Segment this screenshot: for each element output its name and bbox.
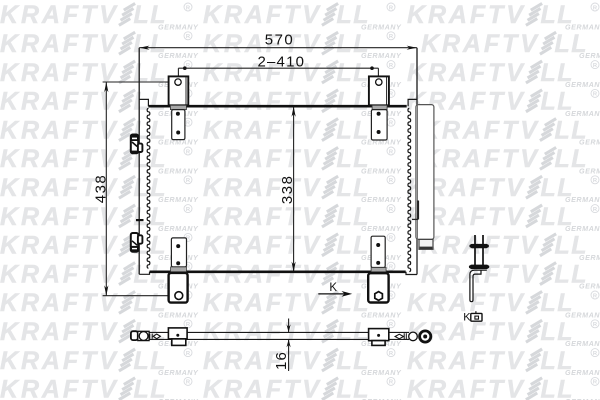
core bottom header (thick)	[150, 270, 406, 273]
top-left bracket lower plate	[172, 110, 185, 140]
svg-text:K: K	[463, 312, 471, 324]
dimension 16 arrowheads	[287, 324, 291, 347]
K-view label xiang box symbol	[471, 311, 482, 321]
dimension 570 arrowheads	[139, 46, 417, 50]
dimension 338 arrowheads	[292, 107, 296, 272]
top-left bracket rivets	[176, 112, 180, 135]
bottom view left block	[168, 328, 187, 346]
bottom-right bracket upper plate	[371, 236, 385, 267]
bottom view left diamond	[153, 334, 160, 339]
bottom-left bracket foot (gray)	[171, 267, 187, 272]
bottom view right connector bars	[404, 333, 406, 340]
top-left bracket inner edge	[185, 77, 187, 105]
top-right bracket lower plate	[371, 110, 387, 140]
dimension 338 vertical line	[293, 107, 295, 272]
receiver drier tank edge seen through	[416, 105, 418, 275]
core top header (thick)	[148, 105, 406, 108]
K-view detail strap	[470, 270, 487, 302]
right tank top	[408, 99, 417, 106]
svg-text:570: 570	[265, 32, 295, 49]
receiver drier body	[416, 105, 434, 240]
bottom view strip bottom line	[149, 338, 409, 340]
svg-text:K: K	[329, 282, 337, 294]
bottom view left end cap	[131, 331, 138, 340]
dimension 570 line	[139, 47, 417, 49]
svg-text:2–410: 2–410	[257, 53, 305, 70]
right fin zigzag	[408, 108, 411, 271]
bottom view strip top line	[149, 331, 409, 333]
bottom-left bracket hole	[175, 292, 183, 300]
left fin zigzag	[147, 108, 150, 268]
K-view detail top bar	[469, 244, 489, 248]
left clip 2 body	[131, 233, 138, 252]
bottom-right bracket hex nut	[375, 292, 383, 301]
bottom view right ring fitting	[420, 331, 431, 342]
K-view detail mid bar	[469, 265, 489, 270]
dimension 438 vertical line	[103, 82, 175, 296]
bottom-right bracket box	[368, 273, 388, 302]
left clip 1 body	[131, 135, 138, 154]
right tank edge / 570 extension line	[416, 48, 418, 275]
dimension 2-410 end dots	[183, 66, 374, 70]
left pipe stub tick	[136, 219, 144, 221]
bottom view left fitting circle	[139, 332, 148, 341]
top-left bracket hole	[175, 79, 181, 85]
bottom-left bracket box	[169, 273, 188, 303]
K view arrow	[318, 291, 352, 297]
svg-text:16: 16	[273, 351, 290, 370]
bottom view left square fitting	[138, 331, 149, 340]
top-left bracket box	[169, 76, 189, 105]
left tank edge / 570 extension line	[138, 48, 140, 275]
dimension 2-410 line with leaders	[178, 68, 378, 79]
top-right bracket inner edge	[386, 77, 388, 105]
bottom view right block	[369, 329, 389, 346]
drier clamp mark	[412, 201, 418, 220]
bottom view right diamond	[395, 334, 403, 339]
top-right bracket rivets	[377, 112, 381, 134]
right tank bottom	[406, 272, 417, 275]
bottom view left connector bars	[150, 334, 152, 339]
top-right bracket foot (gray)	[372, 105, 387, 109]
left clip 2 tab	[138, 235, 143, 243]
svg-text:438: 438	[92, 174, 109, 204]
receiver drier bottom cap	[419, 239, 433, 249]
bottom-left bracket upper plate	[171, 238, 186, 267]
top-right bracket hole	[376, 79, 382, 85]
top-right bracket box	[369, 76, 389, 105]
bottom-right bracket foot (gray)	[371, 268, 386, 272]
dimension 16 line	[288, 319, 290, 372]
bottom-right bracket rivets	[376, 243, 380, 265]
dimension 438 arrowheads	[104, 82, 108, 296]
bottom-left bracket rivets	[176, 244, 180, 265]
K-view detail pins	[475, 235, 483, 267]
top-left bracket foot (gray)	[170, 105, 186, 109]
left tank top	[139, 99, 148, 106]
svg-text:338: 338	[279, 175, 296, 205]
left tank bottom	[139, 272, 149, 275]
bottom view right circle fitting	[409, 332, 418, 341]
left clip 1 tab	[138, 144, 143, 152]
